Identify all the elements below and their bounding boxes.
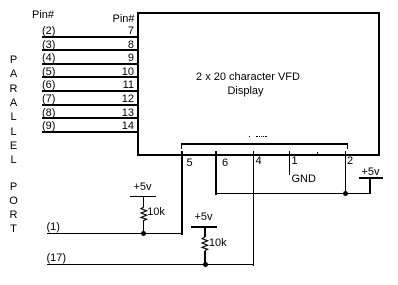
pin 5 label [187, 158, 193, 169]
wire row (5)-10 [42, 76, 138, 78]
node (1) label [47, 222, 60, 233]
junction dot pin2/+5v [343, 191, 348, 196]
+5v supply right label [356, 167, 386, 178]
wire pin 2 vertical [345, 151, 347, 196]
+5v supply R2 label [189, 212, 219, 223]
+5v supply R1 label [128, 182, 158, 193]
node (2) label [42, 26, 55, 37]
junction dot R2/(17) [203, 262, 208, 267]
wire R1 bottom lead [143, 220, 145, 234]
wire row (6)-11 [42, 90, 138, 92]
wire row (4)-9 [42, 63, 138, 65]
connector bracket on display [181, 143, 349, 145]
pin 4 label [256, 156, 262, 167]
pin 13 label [104, 108, 134, 119]
wire node (17) to pin 4 [47, 264, 254, 266]
pin 1 label [292, 156, 298, 167]
wire pin 1 stub [289, 151, 291, 175]
VFD display module U1 (box) [137, 12, 381, 156]
label Pin# (left column header) [32, 10, 54, 21]
node (9) label [42, 121, 55, 132]
wire row (7)-12 [42, 104, 138, 106]
label 2 x 20 character VFD Display [188, 72, 308, 83]
node (6) label [42, 80, 55, 91]
resistor R1 10k [139, 207, 149, 221]
node (7) label [42, 94, 55, 105]
wire pin6 to +5v horizontal [215, 193, 371, 195]
label 10k R1 [147, 207, 165, 218]
connector pin dots inside display [249, 136, 250, 138]
wire pin 5 vertical [181, 151, 183, 235]
pin 2 label [347, 156, 353, 167]
pin 6 label [222, 158, 228, 169]
pin 11 label [104, 80, 134, 91]
node (8) label [42, 108, 55, 119]
node (5) label [42, 67, 55, 78]
node (17) label [47, 253, 67, 264]
wire pin 4 vertical [253, 151, 255, 266]
node (3) label [42, 40, 55, 51]
label PARALLEL (vertical) [7, 55, 20, 66]
wire R1 top lead [143, 197, 145, 207]
wire R2 top lead [204, 228, 206, 238]
junction dot R1/(1) [141, 231, 146, 236]
+5v supply R2 bar [191, 226, 217, 228]
pin 8 label [104, 40, 134, 51]
label Pin# (right column header) [113, 14, 135, 25]
wire row (8)-13 [42, 117, 138, 119]
resistor R2 10k [200, 237, 210, 251]
pin 10 label [104, 67, 134, 78]
wire R2 bottom lead [204, 251, 206, 265]
wire row (2)-7 [42, 36, 138, 38]
label 10k R2 [209, 238, 227, 249]
wire pin 6 vertical [215, 151, 217, 195]
+5v supply right bar [359, 177, 383, 179]
pin 9 label [104, 53, 134, 64]
wire node (1) to pin 5 [47, 233, 183, 235]
wire +5v right stub [369, 179, 371, 194]
node (4) label [42, 53, 55, 64]
wire row (9)-14 [42, 131, 138, 133]
label GND [292, 174, 316, 185]
pin 7 label [104, 26, 134, 37]
wire pin 3 stub (unused) [317, 152, 319, 155]
wire row (3)-8 [42, 49, 138, 51]
+5v supply R1 bar [130, 196, 156, 198]
pin 14 label [104, 121, 134, 132]
pin 12 label [104, 94, 134, 105]
label PORT (vertical) [7, 182, 20, 193]
